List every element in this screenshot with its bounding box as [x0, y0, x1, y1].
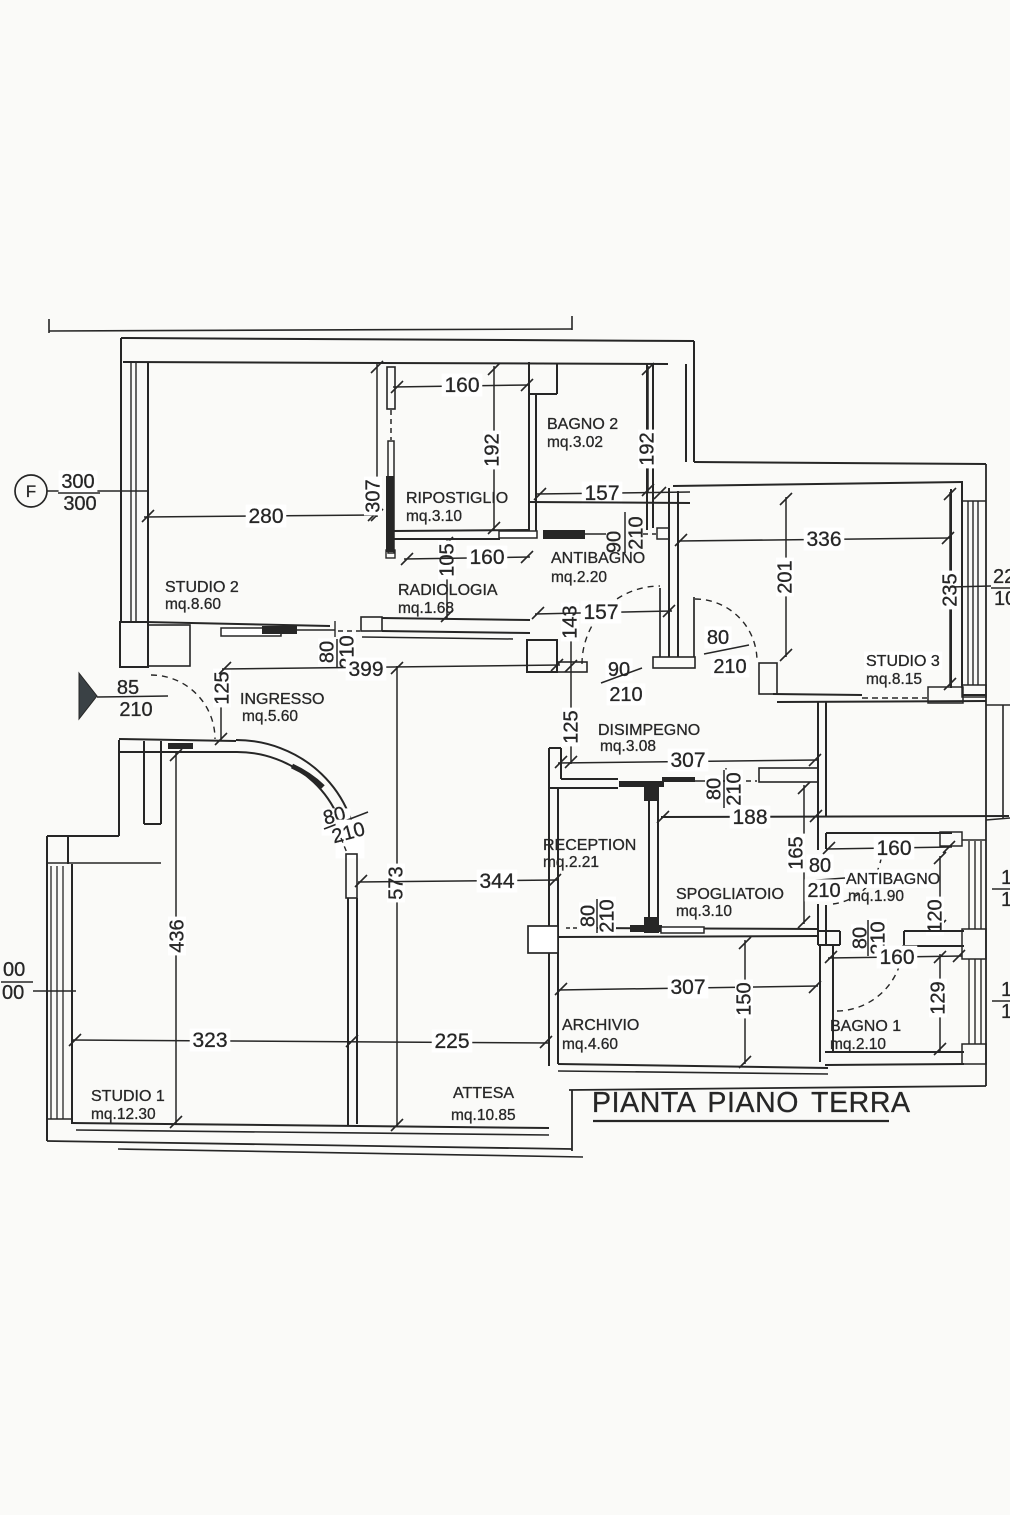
svg-text:120: 120: [925, 899, 947, 932]
svg-text:210: 210: [807, 880, 840, 902]
svg-text:mq.8.15: mq.8.15: [866, 671, 922, 688]
door leaf RIPOSTIGLIO: [388, 441, 394, 553]
east window B glass lines: [968, 841, 970, 929]
svg-text:90: 90: [604, 531, 626, 553]
door swing dash curved: [341, 838, 347, 853]
svg-text:ARCHIVIO: ARCHIVIO: [562, 1017, 639, 1034]
rail end tick: [334, 621, 336, 637]
label 125 ingresso: [213, 669, 231, 708]
curved door leaf dark arc: [292, 766, 323, 787]
wall stub east of sliding door: [759, 768, 818, 782]
tick 188 left: [657, 811, 669, 823]
sliding door pocket studio2: [221, 628, 281, 636]
tick 188 right: [810, 810, 822, 822]
svg-text:10: 10: [1001, 979, 1010, 1001]
svg-text:201: 201: [775, 560, 797, 593]
svg-text:160: 160: [879, 946, 914, 969]
svg-text:160: 160: [444, 374, 479, 397]
svg-text:10: 10: [994, 588, 1010, 610]
label 192 left: [483, 431, 501, 470]
fraction 90/210 disimpegno: [605, 658, 632, 680]
room label ANTIBAGNO lower: [844, 870, 932, 888]
wall BAGNO 2 west: [528, 362, 530, 533]
svg-text:150: 150: [734, 982, 756, 1015]
rail dashes studio2: [338, 630, 360, 632]
reference bubble F: [15, 475, 47, 507]
svg-text:90: 90: [608, 659, 630, 681]
dim line 201: [785, 497, 787, 657]
svg-text:ANTIBAGNO: ANTIBAGNO: [551, 550, 645, 567]
door arc bagno1: [837, 945, 903, 1011]
svg-text:280: 280: [248, 505, 283, 528]
wall SPOGLIATOIO south lower edge: [556, 936, 817, 937]
wall RADIOLOGIA south edges: [382, 618, 530, 620]
svg-text:160: 160: [469, 546, 504, 569]
sliding door leaf spogliatoio: [630, 925, 662, 932]
label 307 archivio: [668, 976, 709, 999]
wall BAGNO 1 south: [825, 1051, 964, 1053]
wall STUDIO 3 south lower edge: [777, 701, 986, 702]
wall fill dark segment ingresso: [168, 743, 193, 749]
svg-text:192: 192: [482, 433, 504, 466]
dim line 307 archivio: [558, 986, 818, 990]
outer boundary line right side: [985, 464, 987, 1086]
svg-text:105: 105: [437, 543, 459, 576]
leader line from F: [47, 490, 148, 492]
sliding door leaf reception A: [619, 781, 664, 787]
wall STUDIO 3 north inner: [673, 482, 963, 486]
wall central room west: [817, 702, 819, 848]
wall divider dark fill bottom: [644, 917, 658, 933]
svg-text:STUDIO 1: STUDIO 1: [91, 1088, 165, 1105]
wall ATTESA west: [347, 898, 349, 1126]
wall step east of door: [759, 663, 777, 694]
east window B top cap: [962, 839, 986, 841]
label 307 vertical: [364, 477, 382, 516]
svg-text:436: 436: [167, 919, 189, 952]
fraction 80/210 curved door: [322, 808, 351, 835]
svg-text:mq.4.60: mq.4.60: [562, 1036, 618, 1053]
dim line 436: [175, 752, 177, 1124]
pillar RADIOLOGIA southeast: [527, 640, 557, 672]
wall STUDIO 3 east: [950, 489, 952, 688]
label 157 lower: [581, 601, 622, 624]
svg-text:INGRESSO: INGRESSO: [240, 691, 324, 708]
svg-text:BAGNO 1: BAGNO 1: [830, 1018, 901, 1035]
svg-text:80: 80: [317, 641, 339, 663]
svg-text:ANTIBAGNO: ANTIBAGNO: [846, 871, 940, 888]
label 300/300: [59, 470, 98, 492]
wall RIPOSTIGLIO west upper part: [387, 367, 395, 409]
svg-text:BAGNO 2: BAGNO 2: [547, 416, 618, 433]
wall RECEPTION west: [548, 788, 550, 1066]
outer boundary bottom line A: [47, 1141, 572, 1149]
door arc 90/210 disimpegno: [582, 586, 660, 664]
wall RECEPTION north lower edge: [549, 787, 618, 789]
wall end rect antibagno north: [940, 832, 962, 846]
wall STUDIO 3 north outer: [694, 462, 986, 464]
label 573: [387, 864, 405, 903]
svg-text:80: 80: [707, 627, 729, 649]
label 160 radiologia: [467, 546, 508, 569]
wall step west vertical C: [160, 741, 162, 824]
wall step west vertical B: [143, 741, 145, 824]
dim line 143: [570, 628, 572, 668]
svg-text:235: 235: [940, 573, 962, 606]
label 157 top: [582, 482, 623, 505]
door leaf curved wall: [346, 854, 357, 898]
dim line 125 disimpegno: [570, 668, 572, 764]
sliding door dashes antibagno: [643, 533, 656, 535]
svg-text:mq.2.21: mq.2.21: [543, 854, 599, 871]
east window A glass lines: [967, 501, 969, 685]
svg-text:STUDIO 2: STUDIO 2: [165, 579, 239, 596]
dim line 160 antibagno: [826, 847, 952, 849]
pilaster ARCHIVIO northwest: [528, 926, 558, 953]
svg-text:mq.3.02: mq.3.02: [547, 434, 603, 451]
wall ANTIBAGNO2 north inner edge: [826, 832, 952, 834]
svg-text:160: 160: [876, 837, 911, 860]
fraction 80/210 disimpegno: [704, 626, 731, 648]
dim line 344: [358, 880, 558, 882]
wall step small vertical: [67, 836, 69, 864]
west window glass lines STUDIO 2: [130, 362, 132, 622]
north wall outer edge: [121, 338, 694, 341]
wall BAGNO 1 west: [819, 946, 821, 1062]
door jamb stub disimpegno: [557, 662, 587, 672]
svg-text:307: 307: [670, 749, 705, 772]
wall south STUDIO1 ATTESA inner edge: [72, 1123, 549, 1128]
svg-text:mq.3.08: mq.3.08: [600, 738, 656, 755]
curved wall inner arc: [236, 752, 346, 856]
dim line 125 ingresso: [220, 703, 222, 741]
label 225: [432, 1030, 473, 1053]
dim line 192 right: [647, 366, 649, 492]
wall step west vertical A: [118, 740, 120, 836]
wall RADIOLOGIA south cap: [361, 617, 382, 631]
sliding door rail antibagno: [585, 533, 606, 535]
wall chunk below STUDIO 2: [148, 625, 190, 666]
wall RECEPTION north upper edge: [561, 778, 618, 780]
svg-text:80: 80: [809, 855, 831, 877]
fraction 80/210 rotated studio2 door: [318, 638, 336, 665]
svg-text:157: 157: [583, 601, 618, 624]
wall BAGNO 2 east: [646, 364, 648, 530]
dim line 160 ripostiglio: [393, 385, 529, 387]
sliding door leaf antibagno: [543, 530, 585, 539]
east window A bottom cap: [962, 685, 986, 697]
sliding door dashes reception: [728, 780, 757, 782]
dim line 323 225: [72, 1040, 549, 1043]
wall STUDIO 2 south upper edge: [145, 622, 330, 626]
exterior stub rectangle right side: [986, 705, 1010, 820]
wall INGRESSO south lower edge: [119, 751, 236, 753]
entry door arc: [151, 675, 215, 739]
wall ARCHIVIO south: [558, 1064, 828, 1068]
svg-text:344: 344: [479, 870, 514, 893]
sliding door leaf reception B: [662, 777, 695, 782]
dim line 160 bagno1: [828, 956, 962, 958]
svg-text:mq.1.68: mq.1.68: [398, 600, 454, 617]
svg-text:399: 399: [348, 658, 383, 681]
door dashed track: [390, 410, 392, 440]
svg-text:300: 300: [63, 493, 96, 515]
wall divider dark fill top: [644, 781, 658, 801]
dim line 573 vertical: [396, 666, 398, 1127]
svg-text:mq.3.10: mq.3.10: [406, 508, 462, 525]
entry arrow: [79, 673, 97, 719]
svg-text:573: 573: [386, 866, 408, 899]
outer boundary bottom line B: [118, 1149, 583, 1157]
door leaf 90/210 open position: [659, 588, 661, 657]
svg-text:STUDIO 3: STUDIO 3: [866, 653, 940, 670]
dim line 192 left: [493, 366, 495, 530]
label 307 disimpegno: [668, 749, 709, 772]
east window C bottom cap: [962, 1044, 986, 1064]
svg-text:192: 192: [637, 432, 659, 465]
wall cap between doors: [653, 657, 695, 668]
wall line below BAGNO 2: [529, 502, 690, 503]
fraction 80/210 rotated bagno1 door: [851, 924, 869, 951]
label 160 ripostiglio: [442, 374, 483, 397]
svg-text:210: 210: [609, 684, 642, 706]
wall divider reception spogliatoio: [648, 786, 650, 933]
svg-text:F: F: [26, 482, 36, 501]
svg-text:DISIMPEGNO: DISIMPEGNO: [598, 722, 700, 739]
sliding door rail studio2: [297, 629, 335, 631]
svg-text:00: 00: [2, 982, 24, 1004]
label 129: [929, 979, 947, 1018]
dim line 235: [949, 492, 951, 686]
window sill bottom STUDIO 1: [47, 1118, 72, 1120]
svg-text:210: 210: [724, 772, 746, 805]
dim line 150: [744, 940, 746, 1064]
svg-text:22: 22: [993, 566, 1010, 588]
label 143: [561, 603, 579, 642]
svg-text:80: 80: [704, 778, 726, 800]
east window C glass lines: [968, 959, 970, 1044]
svg-text:10: 10: [1001, 1001, 1010, 1023]
svg-text:mq.2.20: mq.2.20: [551, 569, 607, 586]
outer boundary vertical at title box: [571, 1090, 573, 1151]
site boundary reference line top: [49, 329, 572, 331]
svg-text:mq.8.60: mq.8.60: [165, 596, 221, 613]
dim line 307 disimpegno: [558, 760, 818, 763]
label 201: [776, 558, 794, 597]
svg-text:ATTESA: ATTESA: [453, 1085, 514, 1102]
svg-text:336: 336: [806, 528, 841, 551]
sliding door end stub antibagno: [657, 528, 669, 539]
svg-text:210: 210: [713, 656, 746, 678]
north wall left end cap: [120, 338, 122, 363]
svg-text:225: 225: [434, 1030, 469, 1053]
wall step cap B C: [144, 823, 161, 825]
label 125 disimpegno: [562, 708, 580, 747]
svg-text:10: 10: [1001, 867, 1010, 889]
fraction 80/210 antibagno: [806, 854, 833, 876]
wall step horizontal A: [47, 835, 119, 837]
wall column east of BAGNO 2 inner: [685, 364, 687, 462]
svg-text:mq.3.10: mq.3.10: [676, 903, 732, 920]
wall RIPOSTIGLIO south: [393, 530, 529, 531]
outer boundary bottom right above title: [569, 1086, 986, 1090]
svg-text:85: 85: [117, 677, 139, 699]
svg-text:mq.1.90: mq.1.90: [848, 888, 904, 905]
wall SPOGLIATOIO south upper edge: [584, 928, 817, 929]
svg-text:mq.10.85: mq.10.85: [451, 1107, 516, 1124]
dim line 105: [446, 540, 448, 618]
wall STUDIO 3 south upper edge east: [963, 694, 986, 696]
label 105: [438, 541, 456, 580]
svg-text:210: 210: [626, 516, 648, 549]
door leaf 80/210 open position: [693, 597, 695, 657]
dim stub at 157 right: [668, 494, 670, 532]
label 160 antibagno: [874, 837, 915, 860]
svg-text:210: 210: [119, 699, 152, 721]
svg-text:RADIOLOGIA: RADIOLOGIA: [398, 582, 498, 599]
wall notch BAGNO 2 northwest: [529, 393, 557, 395]
label 160 bagno1: [877, 946, 918, 969]
west wall outer STUDIO 1: [46, 836, 48, 1141]
dim line 157 lower: [535, 611, 672, 614]
svg-text:188: 188: [732, 806, 767, 829]
entry arrow line and fraction bar: [97, 696, 168, 697]
sliding door pocket antibagno: [499, 531, 537, 538]
label 120: [926, 897, 944, 936]
fraction 80/210 rotated spogliatoio door: [579, 902, 597, 929]
wall RECEPTION northwest L: [549, 747, 561, 749]
dim line 336: [678, 538, 950, 541]
svg-text:129: 129: [928, 981, 950, 1014]
svg-text:307: 307: [363, 479, 385, 512]
wall SPOGLIATOIO east: [817, 848, 819, 850]
sliding door pocket spogliatoio: [661, 927, 704, 933]
west wall inner line STUDIO 2: [147, 362, 149, 622]
curved wall outer arc: [236, 740, 357, 856]
svg-text:10: 10: [1001, 889, 1010, 911]
north wall inner edge: [123, 362, 668, 364]
wall divider antibagno bagno1 left stub: [818, 930, 840, 932]
svg-text:125: 125: [212, 671, 234, 704]
label 399: [346, 658, 387, 681]
dim line 160 radiologia: [404, 557, 530, 559]
wall ANTIBAGNO2 north long edge and dim 188: [661, 816, 1009, 817]
wall divider antibagno bagno1 right: [904, 930, 964, 932]
door arc spogliatoio antibagno: [833, 849, 882, 904]
west wall outer line STUDIO 2: [120, 338, 122, 622]
svg-text:SPOGLIATOIO: SPOGLIATOIO: [676, 886, 784, 903]
west wall inner STUDIO 1: [71, 864, 73, 1124]
room label STUDIO 3: [864, 652, 942, 670]
label 323: [190, 1029, 231, 1052]
label 188: [730, 806, 771, 829]
svg-text:210: 210: [597, 899, 619, 932]
svg-text:00: 00: [3, 959, 25, 981]
dim line 307 vertical: [376, 364, 378, 517]
dim line 120: [939, 856, 941, 928]
wall step notch below STUDIO 3: [928, 687, 963, 703]
label 235: [941, 571, 959, 610]
dim line 280: [144, 515, 376, 517]
corridor wall east of ANTIBAGNO: [668, 488, 670, 657]
wall cap RIPOSTIGLIO west bottom: [386, 550, 395, 558]
east window A top cap: [963, 500, 986, 502]
window sill top STUDIO 1: [47, 862, 161, 864]
svg-text:125: 125: [561, 710, 583, 743]
wall INGRESSO south upper edge: [119, 739, 236, 741]
leader 22/10 right edge: [950, 586, 991, 587]
wall STUDIO 3 south upper edge west: [773, 694, 862, 695]
label 436: [168, 917, 186, 956]
wall column east of BAGNO 2 outer: [693, 341, 695, 462]
west window glass lines STUDIO 1: [50, 866, 52, 1119]
svg-text:RIPOSTIGLIO: RIPOSTIGLIO: [406, 490, 508, 507]
label 336: [804, 528, 845, 551]
west wall pier below window: [120, 622, 148, 667]
svg-text:300: 300: [61, 471, 94, 493]
sliding door track dashes: [566, 927, 584, 929]
svg-text:mq.12.30: mq.12.30: [91, 1106, 156, 1123]
label 165: [787, 834, 805, 873]
door threshold dashes STUDIO 3: [862, 697, 927, 699]
sliding door rail reception: [695, 780, 727, 782]
svg-text:307: 307: [670, 976, 705, 999]
svg-text:PIANTA PIANO TERRA: PIANTA PIANO TERRA: [592, 1087, 911, 1119]
label 150: [735, 980, 753, 1019]
svg-text:323: 323: [192, 1029, 227, 1052]
svg-text:143: 143: [560, 605, 582, 638]
svg-text:mq.2.10: mq.2.10: [830, 1036, 886, 1053]
dim line 157 top: [536, 492, 690, 494]
door arc 80/210 disimpegno east: [695, 599, 757, 661]
leader line 00/00: [33, 990, 76, 992]
sliding door leaf studio2: [262, 626, 297, 634]
fraction 80/210 rotated reception door: [705, 775, 723, 802]
label 344: [477, 870, 518, 893]
wall chunk between windows B C: [962, 929, 986, 959]
dim line 129: [939, 954, 941, 1051]
svg-text:165: 165: [786, 836, 808, 869]
label 280: [246, 505, 287, 528]
svg-text:mq.5.60: mq.5.60: [242, 708, 298, 725]
dim line 165: [803, 785, 805, 924]
title underline: [593, 1120, 889, 1122]
label 192 right: [638, 430, 656, 469]
dim line 399: [222, 665, 560, 669]
